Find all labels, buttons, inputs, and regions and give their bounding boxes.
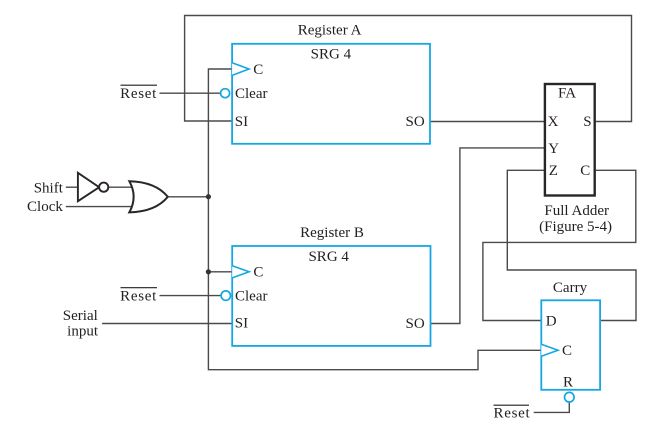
OR gate <box>129 181 168 212</box>
wire: Clock to OR gate input <box>66 206 137 208</box>
wire: Reset to Register A Clear <box>160 92 222 94</box>
junction node: Register B C branch <box>206 269 211 274</box>
svg-text:FA: FA <box>558 86 576 102</box>
svg-text:S: S <box>583 114 591 130</box>
wire: FA C output to Carry D input <box>483 170 636 320</box>
carry flip-flop block <box>541 300 600 390</box>
svg-text:X: X <box>548 114 559 130</box>
wire: Register B SO to FA Y input <box>431 148 545 324</box>
svg-text:SI: SI <box>235 114 248 130</box>
svg-text:SI: SI <box>235 316 248 332</box>
svg-text:Full Adder: Full Adder <box>544 203 609 219</box>
register B clock edge triangle <box>232 266 249 278</box>
register A block SRG 4 <box>232 44 430 144</box>
svg-text:SO: SO <box>406 316 425 332</box>
wire: clock bus branch to Register B C input <box>208 271 232 273</box>
register A Clear bubble <box>221 89 230 98</box>
wire: FA S output feedback, up over top, down to SI of Register A <box>185 16 632 122</box>
svg-text:Register B: Register B <box>300 225 364 241</box>
svg-text:Z: Z <box>549 163 558 179</box>
register B Clear bubble <box>221 291 230 300</box>
svg-text:Y: Y <box>548 141 559 157</box>
svg-text:Reset: Reset <box>494 406 531 422</box>
full adder FA block <box>545 84 595 196</box>
svg-text:Clear: Clear <box>235 288 267 304</box>
svg-text:Reset: Reset <box>120 288 157 304</box>
wire: Shift to inverter input <box>66 186 78 188</box>
svg-text:(Figure 5-4): (Figure 5-4) <box>539 219 612 235</box>
svg-text:C: C <box>580 163 590 179</box>
svg-text:C: C <box>562 343 572 359</box>
carry clock edge triangle <box>541 344 558 356</box>
wire: Reset to Register B Clear <box>160 295 222 297</box>
svg-text:Clock: Clock <box>27 199 63 215</box>
svg-text:SO: SO <box>406 114 425 130</box>
wire: Register A SO to FA X input <box>430 121 545 123</box>
wire: inverter output to OR gate input <box>109 186 134 188</box>
svg-text:Register A: Register A <box>298 23 362 39</box>
wire: OR gate output to clock bus <box>168 196 209 198</box>
wire: Reset to Carry R bubble <box>534 402 570 412</box>
wire: clock bus from Register A C input down, along bottom, up to Carry C input <box>208 69 541 370</box>
inverter (NOT gate) on Shift input <box>78 173 99 201</box>
svg-text:input: input <box>67 323 99 339</box>
wire: Carry Q output to FA Z input <box>507 170 636 320</box>
svg-text:Clear: Clear <box>235 86 267 102</box>
svg-text:R: R <box>563 375 573 391</box>
carry reset bubble <box>565 392 575 402</box>
wire: Serial input to Register B SI <box>102 323 232 325</box>
svg-text:Reset: Reset <box>120 86 157 102</box>
inverter output bubble <box>99 183 108 192</box>
svg-text:Carry: Carry <box>553 280 588 296</box>
register A clock edge triangle <box>232 63 249 76</box>
svg-text:Serial: Serial <box>63 308 98 324</box>
svg-text:SRG 4: SRG 4 <box>308 249 349 265</box>
svg-text:D: D <box>546 313 557 329</box>
svg-text:Shift: Shift <box>34 180 64 196</box>
svg-text:SRG 4: SRG 4 <box>311 46 352 62</box>
svg-text:C: C <box>253 62 263 78</box>
junction node: OR output on clock bus <box>206 194 211 199</box>
register B block SRG 4 <box>232 246 430 346</box>
svg-text:C: C <box>253 265 263 281</box>
